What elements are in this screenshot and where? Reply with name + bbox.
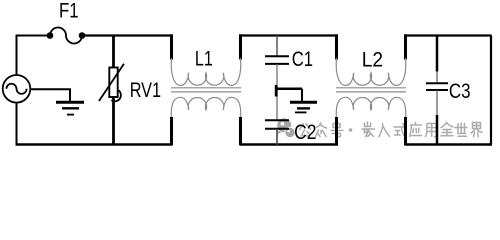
wire: bottom rail right	[405, 143, 493, 146]
wire: source top to fuse	[17, 36, 48, 76]
ground (input)	[56, 102, 84, 114]
watermark text 号	[331, 124, 343, 138]
choke L2 top-left stub	[335, 34, 338, 59]
wire: right edge	[490, 36, 492, 145]
wire: top rail middle	[240, 34, 339, 36]
choke L1 top-right stub	[239, 34, 242, 59]
capacitor C2	[265, 120, 289, 129]
ac source V1	[3, 75, 31, 103]
svg-text:L1: L1	[195, 47, 213, 71]
wire: C3 top stub	[436, 36, 439, 84]
wire: bottom rail middle	[240, 143, 339, 146]
watermark logo	[277, 118, 296, 138]
choke L1 bottom-right stub	[239, 117, 242, 145]
wire: varistor branch top	[112, 36, 115, 68]
choke L2 top-right stub	[404, 34, 407, 59]
wire: C3 bottom stub	[436, 90, 438, 146]
wire: varistor branch bottom	[112, 97, 115, 145]
watermark text 世	[455, 123, 467, 136]
choke L1 bottom-left stub	[170, 117, 173, 145]
wire: top rail right	[405, 34, 492, 36]
svg-text:L2: L2	[362, 48, 383, 72]
svg-text:RV1: RV1	[130, 78, 161, 102]
wire: C1 top stub	[276, 36, 278, 57]
wire: source bottom	[16, 103, 18, 145]
choke L2 core	[336, 88, 406, 92]
junction tick	[275, 85, 278, 97]
choke L2 bottom-right stub	[404, 117, 407, 145]
wire: source right to ground	[30, 89, 70, 101]
watermark text 嵌	[362, 122, 375, 137]
watermark text 应	[410, 123, 422, 137]
varistor RV1	[99, 64, 124, 102]
svg-text:C3: C3	[449, 79, 471, 103]
watermark text 入	[379, 124, 390, 137]
choke L1 bottom winding	[171, 97, 241, 119]
choke L1 core	[171, 88, 241, 92]
svg-text:C2: C2	[294, 120, 316, 144]
fuse F1	[47, 28, 86, 44]
watermark text 公	[300, 124, 311, 137]
choke L2 bottom winding	[336, 97, 406, 119]
svg-text:F1: F1	[59, 0, 79, 23]
capacitor C1	[265, 56, 289, 64]
choke L2 top winding	[336, 58, 406, 85]
watermark text 全	[441, 123, 453, 136]
choke L2 bottom-left stub	[335, 117, 338, 145]
watermark text 众	[316, 123, 327, 137]
svg-text:C1: C1	[292, 47, 313, 71]
wire: C1 to C2	[276, 64, 278, 120]
watermark text 用	[426, 124, 437, 137]
wire: junction to mid ground	[276, 87, 302, 90]
watermark text 式	[394, 124, 406, 137]
wire: bottom rail left	[16, 143, 173, 146]
choke L1 top-left stub	[170, 34, 173, 59]
wire: C2 bottom stub	[276, 129, 278, 145]
ground (mid)	[290, 89, 317, 113]
capacitor C3	[426, 83, 448, 90]
watermark text 界	[471, 123, 482, 137]
wire: fuse to L1	[85, 34, 171, 36]
watermark dot	[349, 128, 353, 132]
choke L1 top winding	[171, 58, 241, 85]
